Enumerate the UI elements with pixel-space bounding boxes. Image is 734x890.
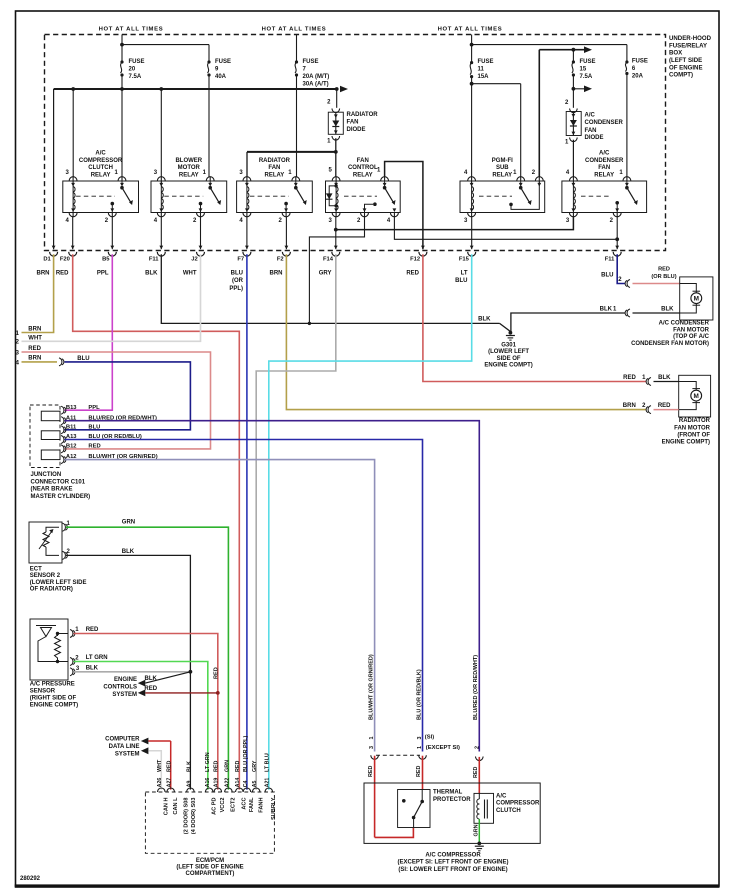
wire RED stubs into compressor	[374, 756, 376, 838]
svg-text:RELAY: RELAY	[492, 172, 512, 178]
wire BRN: F2 down, right to radiator fan motor pin 2	[286, 254, 646, 409]
svg-text:RED: RED	[235, 761, 241, 772]
svg-text:15: 15	[580, 67, 587, 73]
svg-text:CONTROL: CONTROL	[348, 165, 378, 171]
svg-text:PPL): PPL)	[229, 286, 243, 292]
svg-text:A22: A22	[224, 778, 230, 788]
wire: condenser relay pin 3 over to F14 junction	[336, 217, 574, 230]
svg-text:A5: A5	[252, 780, 258, 787]
svg-text:GRY: GRY	[252, 760, 258, 772]
a/c pressure sensor	[30, 619, 68, 680]
svg-text:RED: RED	[28, 346, 41, 352]
svg-text:A/C: A/C	[599, 151, 610, 157]
svg-text:(TOP OF A/C: (TOP OF A/C	[673, 334, 710, 340]
wire: diode pin1 junction to fan control relay pin 5 and radiator fan relay pin 3	[335, 138, 337, 177]
svg-text:ECT2: ECT2	[230, 798, 236, 812]
svg-text:PROTECTOR: PROTECTOR	[433, 797, 471, 803]
svg-text:30A (A/T): 30A (A/T)	[303, 82, 329, 88]
svg-text:PGM-FI: PGM-FI	[492, 158, 513, 164]
a/c condenser fan diode	[570, 109, 578, 113]
connector F12 at fuse box border	[421, 246, 425, 250]
wire: fuse 15 feed with arrow to other circuits	[539, 49, 585, 51]
svg-text:ENGINE COMPT): ENGINE COMPT)	[484, 362, 532, 368]
C101 pin A12	[61, 456, 64, 464]
svg-text:CLUTCH: CLUTCH	[496, 808, 521, 814]
ECM pin A26 WHT	[158, 788, 166, 792]
svg-text:(2 DOOR) S08: (2 DOOR) S08	[184, 798, 190, 835]
svg-text:PPL: PPL	[97, 270, 109, 276]
fuse 11 (15A)	[470, 61, 473, 64]
svg-text:HOT AT ALL TIMES: HOT AT ALL TIMES	[262, 26, 327, 32]
svg-text:(SI): (SI)	[425, 735, 434, 741]
svg-text:A/C: A/C	[95, 151, 106, 157]
svg-text:15A: 15A	[478, 74, 490, 80]
svg-text:CAN L: CAN L	[173, 797, 179, 815]
svg-text:RED: RED	[406, 270, 419, 276]
svg-text:RELAY: RELAY	[265, 172, 285, 178]
C101 pin A13	[61, 436, 64, 444]
svg-text:FAN: FAN	[585, 128, 597, 134]
wire RED: F12 down, right to radiator fan motor pin 1	[423, 254, 647, 381]
svg-text:B12: B12	[66, 444, 77, 450]
C101 pin B12	[61, 445, 64, 453]
svg-text:SYSTEM: SYSTEM	[112, 692, 137, 698]
svg-text:RADIATOR: RADIATOR	[259, 158, 291, 164]
svg-text:FAN: FAN	[357, 158, 369, 164]
svg-text:FUSE: FUSE	[580, 59, 596, 65]
svg-text:40A: 40A	[215, 74, 227, 80]
svg-text:SUB: SUB	[496, 165, 509, 171]
svg-text:B11: B11	[66, 424, 77, 430]
svg-text:VCC2: VCC2	[220, 798, 226, 813]
thermal protector	[398, 790, 430, 828]
wire: feed from hot2 to fuse 7	[296, 35, 298, 63]
svg-text:GRN: GRN	[122, 519, 135, 525]
wire A11 BLU/RED to a/c compressor pin 2 column	[65, 421, 480, 752]
under-hood fuse/relay box (dashed)	[45, 35, 666, 251]
wire: fuse 7 down to radiator fan relay pin 1	[296, 75, 298, 177]
svg-text:(SI: LOWER LEFT FRONT OF ENGIN: (SI: LOWER LEFT FRONT OF ENGINE)	[398, 867, 507, 873]
ECT sensor pin 1	[63, 523, 66, 531]
svg-text:CONDENSER FAN MOTOR): CONDENSER FAN MOTOR)	[631, 341, 709, 347]
wire LT BLU: F15 down, left, down to ECM A21 (SUBRLY)	[269, 254, 472, 789]
svg-text:BLU (OR RED/BLK): BLU (OR RED/BLK)	[416, 669, 422, 720]
wire: feed from hot3 to fuse 11 and fuse 6	[471, 35, 473, 63]
svg-text:20A: 20A	[632, 74, 644, 80]
svg-text:RED: RED	[658, 403, 671, 409]
svg-text:A14: A14	[235, 778, 241, 788]
svg-text:THERMAL: THERMAL	[433, 789, 463, 795]
wire: fuse 20 to bus to clutch relay pin 1	[121, 75, 123, 177]
svg-text:BLU (OR PPL): BLU (OR PPL)	[243, 736, 249, 772]
svg-text:GRN: GRN	[224, 760, 230, 772]
svg-text:B13: B13	[66, 405, 77, 411]
main bus wire from fuse 20 output	[54, 88, 338, 90]
svg-text:RED: RED	[416, 766, 422, 777]
wire: clutch relay pin 2 to B5	[111, 217, 113, 249]
svg-text:FUSE: FUSE	[129, 59, 145, 65]
svg-text:A/C PRESSURE: A/C PRESSURE	[30, 681, 75, 687]
svg-text:LT GRN: LT GRN	[86, 655, 108, 661]
svg-text:RED: RED	[56, 270, 69, 276]
wire: fuse 15 branch down to PGM-FI sub relay pin 2	[538, 50, 540, 177]
wire: fan control relay pin 4 to condenser relay pin 2 junction	[394, 217, 617, 240]
svg-text:ENGINE COMPT): ENGINE COMPT)	[30, 702, 78, 708]
svg-text:RED: RED	[88, 444, 100, 450]
svg-text:A/C COMPRESSOR: A/C COMPRESSOR	[425, 852, 481, 858]
svg-text:BLK: BLK	[145, 270, 158, 276]
svg-text:280292: 280292	[20, 876, 41, 882]
fuse 9 (40A)	[207, 60, 210, 63]
relay K1: A/C compressor clutch relay	[63, 181, 139, 213]
relay K5: PGM-FI sub relay	[460, 181, 545, 213]
svg-text:BLU/WHT (OR GRN/RED): BLU/WHT (OR GRN/RED)	[368, 654, 374, 720]
wire: bus down to D1	[53, 89, 55, 249]
C101 pin B13	[61, 406, 64, 414]
svg-text:(LOWER LEFT: (LOWER LEFT	[488, 349, 529, 355]
svg-text:1: 1	[417, 746, 423, 749]
wire GRN: ECT sensor to ECM A22 (ECT2)	[66, 527, 228, 789]
fuse 15 (7.5A)	[572, 60, 575, 63]
svg-text:F20: F20	[60, 256, 70, 262]
svg-text:ENGINE COMPT): ENGINE COMPT)	[662, 439, 710, 445]
wire BRN: D1 down, left to edge row 1	[22, 254, 54, 332]
svg-text:(OR: (OR	[232, 278, 244, 284]
connector F2 at fuse box border	[285, 246, 289, 250]
svg-text:LT BLU: LT BLU	[265, 753, 271, 772]
svg-text:G301: G301	[501, 342, 516, 348]
wire: blower relay pin 4 to F11	[160, 217, 162, 249]
svg-text:BRN: BRN	[270, 270, 283, 276]
svg-text:(NEAR BRAKE: (NEAR BRAKE	[31, 487, 73, 493]
svg-text:CONTROLS: CONTROLS	[103, 684, 137, 690]
svg-text:FUSE: FUSE	[303, 59, 319, 65]
arrow to engine controls (BLK)	[138, 680, 146, 687]
wire: fuse 9 down to blower relay pin 1	[208, 75, 210, 177]
svg-text:BRN: BRN	[28, 327, 41, 333]
fuse 7 (20A M/T, 30A A/T)	[295, 60, 298, 63]
wire: fan control relay pin 1 up over and down to F12	[385, 162, 423, 250]
a/c compressor clutch coil	[474, 793, 494, 823]
svg-text:BLK: BLK	[661, 306, 674, 312]
svg-text:1: 1	[15, 330, 19, 337]
svg-text:FANH: FANH	[258, 798, 264, 813]
wire: radiator relay pin 4 to F7	[246, 217, 248, 249]
svg-text:RELAY: RELAY	[353, 172, 373, 178]
radiator fan motor M2	[679, 375, 711, 417]
relay K2: blower motor relay	[151, 181, 227, 213]
wire BLK from G301 up to condenser fan motor pin 1	[510, 313, 625, 333]
svg-text:RELAY: RELAY	[179, 172, 199, 178]
svg-text:SIDE OF: SIDE OF	[497, 356, 521, 362]
svg-text:HOT AT ALL TIMES: HOT AT ALL TIMES	[99, 26, 164, 32]
a/c pressure sensor pin 2	[70, 658, 73, 666]
connector F15 at fuse box border	[470, 246, 474, 250]
svg-text:FUSE: FUSE	[632, 59, 648, 65]
svg-text:7.5A: 7.5A	[580, 74, 593, 80]
svg-text:ECM/PCM: ECM/PCM	[196, 858, 224, 864]
svg-text:COMPARTMENT): COMPARTMENT)	[186, 871, 235, 877]
arrow to engine controls (RED)	[138, 690, 146, 697]
svg-text:RELAY: RELAY	[594, 172, 614, 178]
svg-text:3: 3	[15, 349, 19, 356]
svg-text:CONDENSER: CONDENSER	[585, 158, 624, 164]
svg-text:(RIGHT SIDE OF: (RIGHT SIDE OF	[30, 695, 77, 701]
relay K4: fan control relay	[326, 181, 401, 213]
wire BLK: F11 down, right to G301 ground	[161, 254, 499, 323]
svg-text:WHT: WHT	[183, 270, 197, 276]
svg-text:(OR BLU): (OR BLU)	[651, 274, 676, 280]
wire: feed from hot1 to fuse 20 and fuse 9	[121, 35, 123, 63]
svg-text:ECT: ECT	[30, 566, 42, 572]
svg-text:J2: J2	[191, 256, 197, 262]
wire BLU: F11 down, right to condenser fan motor pin 2	[617, 254, 625, 283]
svg-text:BLK: BLK	[122, 549, 135, 555]
svg-text:M: M	[694, 295, 699, 302]
svg-text:BLU: BLU	[88, 424, 100, 430]
wire GRN: clutch coil to ground	[478, 819, 480, 843]
svg-text:BLK: BLK	[86, 666, 99, 672]
svg-text:BLK: BLK	[600, 306, 613, 312]
svg-text:COMPUTER: COMPUTER	[105, 736, 140, 742]
ECT sensor pin 2	[63, 551, 66, 559]
ECM pin A19 RED	[214, 788, 222, 792]
svg-text:A/C: A/C	[496, 793, 507, 799]
wire: fuse 15 output down to condenser fan diode, arrow branch	[572, 75, 574, 108]
svg-text:BRN: BRN	[28, 355, 41, 361]
svg-text:A9: A9	[186, 780, 192, 787]
fuse 20 (7.5A)	[120, 60, 123, 63]
arrow computer data line (RED)	[141, 738, 149, 745]
svg-text:20: 20	[129, 67, 136, 73]
svg-text:3: 3	[369, 746, 375, 749]
arrow computer data line (WHT)	[141, 747, 149, 754]
fan control relay pin2 contact	[365, 204, 374, 212]
svg-text:(LEFT SIDE: (LEFT SIDE	[669, 57, 702, 64]
svg-text:MASTER CYLINDER): MASTER CYLINDER)	[31, 494, 91, 500]
svg-text:WHT: WHT	[28, 335, 42, 341]
wire: condenser diode pin 1 to condenser fan relay pin 4	[572, 140, 574, 177]
wire RED(OR BLU) to condenser fan motor	[633, 283, 680, 285]
svg-text:WHT: WHT	[157, 759, 163, 772]
svg-text:BLOWER: BLOWER	[175, 158, 202, 164]
wire: blower relay pin 2 to J2	[200, 217, 202, 249]
wire WHT: J2 down, left to edge row 2	[22, 254, 201, 341]
svg-text:FAN MOTOR: FAN MOTOR	[673, 327, 710, 333]
svg-text:AC PD: AC PD	[211, 798, 217, 815]
C101 pin B11	[61, 426, 64, 434]
wire RED: pin3 run inside compressor to thermal protector	[375, 828, 414, 838]
svg-text:A16: A16	[205, 778, 211, 788]
wire PPL: B5 down to junction connector C101 B13	[65, 254, 113, 410]
svg-text:F14: F14	[323, 256, 334, 262]
ECM pin A27 RED	[167, 788, 175, 792]
svg-text:HOT AT ALL TIMES: HOT AT ALL TIMES	[438, 26, 503, 32]
wire: bus down to clutch relay pin 3	[72, 89, 74, 177]
svg-text:RADIATOR: RADIATOR	[347, 112, 379, 118]
svg-text:D1: D1	[43, 256, 51, 262]
svg-text:FAN: FAN	[598, 165, 610, 171]
svg-text:BLK: BLK	[186, 761, 192, 772]
ECM pin C4 BLU (OR PPL)	[243, 788, 251, 792]
svg-text:11: 11	[478, 67, 485, 73]
wire RED into radiator fan motor pin 2	[654, 409, 679, 411]
svg-text:CONNECTOR C101: CONNECTOR C101	[31, 479, 86, 485]
wire BLK: pressure sensor to BLK junction	[74, 671, 191, 673]
svg-text:OF RADIATOR): OF RADIATOR)	[30, 587, 73, 593]
svg-text:(EXCEPT SI): (EXCEPT SI)	[426, 745, 460, 751]
junction connector C101 dashed box	[30, 405, 60, 468]
svg-text:F12: F12	[410, 256, 420, 262]
ECM pin A9 BLK	[187, 788, 195, 792]
svg-text:RED: RED	[167, 761, 173, 772]
a/c compressor box	[364, 783, 540, 843]
svg-text:LT: LT	[461, 270, 468, 276]
svg-text:B5: B5	[102, 256, 110, 262]
wire: clutch relay pin 4 to F20	[72, 217, 74, 249]
svg-text:FAN MOTOR: FAN MOTOR	[674, 425, 711, 431]
wire BLK diagonal into ground G301	[500, 323, 511, 331]
svg-text:SYSTEM: SYSTEM	[115, 751, 140, 757]
compressor case ground	[477, 842, 481, 846]
svg-text:RED: RED	[213, 667, 219, 679]
svg-text:DIODE: DIODE	[585, 135, 604, 141]
svg-text:2: 2	[15, 339, 19, 346]
svg-text:SENSOR 2: SENSOR 2	[30, 573, 61, 579]
svg-text:FANL: FANL	[249, 797, 255, 812]
svg-text:RED: RED	[144, 686, 157, 692]
svg-text:A26: A26	[157, 778, 163, 788]
svg-text:SUBRLY: SUBRLY	[271, 797, 277, 820]
wire LT GRN: pressure sensor to ECM A16 (AC PD)	[74, 662, 208, 790]
svg-text:F11: F11	[149, 256, 159, 262]
svg-text:DATA LINE: DATA LINE	[109, 744, 140, 750]
svg-text:GRN: GRN	[474, 824, 480, 836]
wire: bus down to radiator fan diode pin 2	[336, 89, 338, 108]
svg-text:(FRONT OF: (FRONT OF	[677, 432, 710, 438]
svg-text:M: M	[694, 393, 699, 400]
wire RED: F20 down, right, down to ECM A14 (ACC)	[73, 254, 240, 789]
svg-text:ACC: ACC	[241, 798, 247, 810]
svg-text:BLU: BLU	[455, 278, 467, 284]
svg-text:BLU/RED (OR RED/WHT): BLU/RED (OR RED/WHT)	[473, 655, 479, 720]
relay K6: A/C condenser fan relay	[562, 181, 647, 213]
svg-text:MOTOR: MOTOR	[178, 165, 201, 171]
fuse 6 (20A)	[625, 60, 628, 63]
radiator fan diode	[332, 109, 340, 113]
ECM pin A21 LT BLU	[265, 788, 273, 792]
connector F20 at fuse box border	[71, 246, 75, 250]
svg-text:OF ENGINE: OF ENGINE	[669, 64, 703, 71]
svg-text:CLUTCH: CLUTCH	[88, 165, 113, 171]
svg-text:JUNCTION: JUNCTION	[31, 472, 62, 478]
svg-text:3: 3	[417, 737, 423, 740]
wire BLK into radiator fan motor	[654, 381, 679, 383]
svg-text:A21: A21	[265, 778, 271, 788]
svg-text:4: 4	[15, 359, 19, 366]
svg-text:DIODE: DIODE	[347, 127, 366, 133]
ECM pin A14 RED	[236, 788, 244, 792]
connector F11 at fuse box border	[615, 246, 619, 250]
ECT sensor 2	[29, 522, 62, 563]
relay K3: radiator fan relay	[237, 181, 313, 213]
svg-text:RED: RED	[86, 627, 99, 633]
svg-text:F15: F15	[459, 256, 470, 262]
svg-text:GRY: GRY	[319, 270, 332, 276]
svg-text:FUSE/RELAY: FUSE/RELAY	[669, 42, 707, 49]
svg-text:FUSE: FUSE	[215, 59, 231, 65]
wire: fuse 6 down to condenser fan relay pin 1	[626, 74, 628, 178]
svg-text:FAN: FAN	[347, 119, 359, 125]
svg-text:BRN: BRN	[623, 403, 636, 409]
dashed link between compressor pins 3 and 1	[376, 754, 420, 756]
svg-text:BLU: BLU	[231, 270, 243, 276]
wire BLK: ECT sensor to ECM A9	[66, 555, 190, 789]
wire: fuse 11 branch to PGM-FI sub relay pins 4 and 1	[471, 77, 473, 177]
wire RED: pressure sensor to ECM A19 (VCC2)	[74, 634, 218, 790]
svg-text:UNDER-HOOD: UNDER-HOOD	[669, 35, 712, 42]
wire RED to ECM A27 (CAN L)	[170, 741, 172, 790]
svg-text:RADIATOR: RADIATOR	[679, 418, 711, 424]
C101 pin A11	[61, 417, 64, 425]
a/c pressure sensor pin 3	[70, 668, 73, 676]
svg-text:BLU: BLU	[77, 356, 89, 362]
svg-text:1: 1	[369, 737, 375, 740]
ECM/PCM dashed box	[145, 792, 274, 853]
svg-text:A19: A19	[214, 778, 220, 788]
wire A12 BLU/WHT to a/c compressor pin 3 column	[65, 460, 375, 752]
svg-text:SENSOR: SENSOR	[30, 688, 56, 694]
C101 internal bus bars	[41, 411, 60, 421]
svg-text:RED: RED	[658, 266, 670, 272]
svg-text:FUSE: FUSE	[478, 59, 494, 65]
ground G301	[509, 331, 513, 335]
connector J2 at fuse box border	[199, 246, 203, 250]
svg-text:FAN: FAN	[268, 165, 280, 171]
wire: fan control relay pin 3 to F14, junction with condenser relay pin 3	[335, 217, 337, 249]
svg-text:BLK: BLK	[478, 316, 491, 322]
wire: fan control relay pin 2 black to ground run	[309, 217, 364, 324]
svg-text:BLK: BLK	[658, 375, 671, 381]
svg-text:A27: A27	[167, 778, 173, 788]
svg-text:RED: RED	[473, 767, 479, 778]
connector F11 at fuse box border	[159, 246, 163, 250]
fan control relay internal diode	[329, 186, 336, 206]
a/c condenser fan motor M1	[680, 277, 713, 320]
wire: condenser relay pin 2 to F11 (right)	[616, 217, 618, 249]
wire A13 BLU(OR RED/BLU) to a/c compressor pin 1 column	[65, 440, 423, 752]
svg-text:CONDENSER: CONDENSER	[585, 120, 624, 126]
svg-text:ENGINE: ENGINE	[114, 677, 137, 683]
svg-text:(LOWER LEFT SIDE: (LOWER LEFT SIDE	[30, 580, 87, 586]
ECM pin A16 LT GRN	[205, 788, 213, 792]
svg-text:RED: RED	[623, 375, 636, 381]
wire: radiator relay pin 2 to F2	[285, 217, 287, 249]
svg-text:F7: F7	[237, 256, 244, 262]
svg-text:BLU: BLU	[601, 273, 613, 279]
connector D1 at fuse box border	[52, 246, 56, 250]
svg-text:RED: RED	[214, 761, 220, 772]
svg-text:20A (M/T): 20A (M/T)	[303, 74, 330, 80]
connector B5 at fuse box border	[110, 246, 114, 250]
connector F14 at fuse box border	[334, 246, 338, 250]
wire: PGM-FI relay pin 3 to F15	[471, 217, 473, 249]
svg-text:CAN H: CAN H	[163, 798, 169, 816]
svg-text:(EXCEPT SI: LEFT FRONT OF ENGI: (EXCEPT SI: LEFT FRONT OF ENGINE)	[398, 860, 509, 866]
svg-text:C4: C4	[243, 780, 249, 787]
svg-text:A/C CONDENSER: A/C CONDENSER	[659, 321, 710, 327]
ECM pin A22 GRN	[225, 788, 233, 792]
